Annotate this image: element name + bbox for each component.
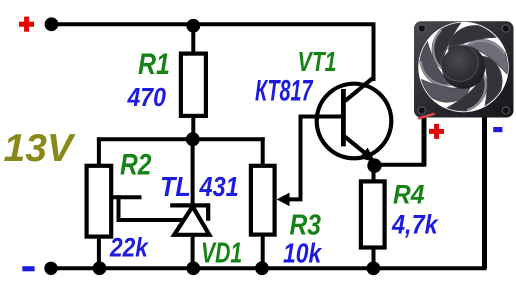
svg-text:22k: 22k [109, 233, 149, 263]
svg-text:4,7k: 4,7k [391, 210, 439, 240]
svg-text:R1: R1 [138, 47, 170, 81]
svg-text:VD1: VD1 [201, 237, 242, 269]
svg-text:VT1: VT1 [298, 46, 337, 78]
svg-text:R3: R3 [290, 209, 322, 241]
svg-text:10k: 10k [283, 238, 323, 269]
svg-text:TL: TL [160, 171, 191, 203]
svg-text:R2: R2 [120, 147, 151, 181]
svg-text:13V: 13V [4, 127, 76, 170]
svg-text:470: 470 [127, 84, 167, 113]
svg-text:КТ817: КТ817 [255, 75, 314, 108]
svg-text:R4: R4 [393, 180, 424, 209]
svg-text:431: 431 [199, 172, 239, 202]
